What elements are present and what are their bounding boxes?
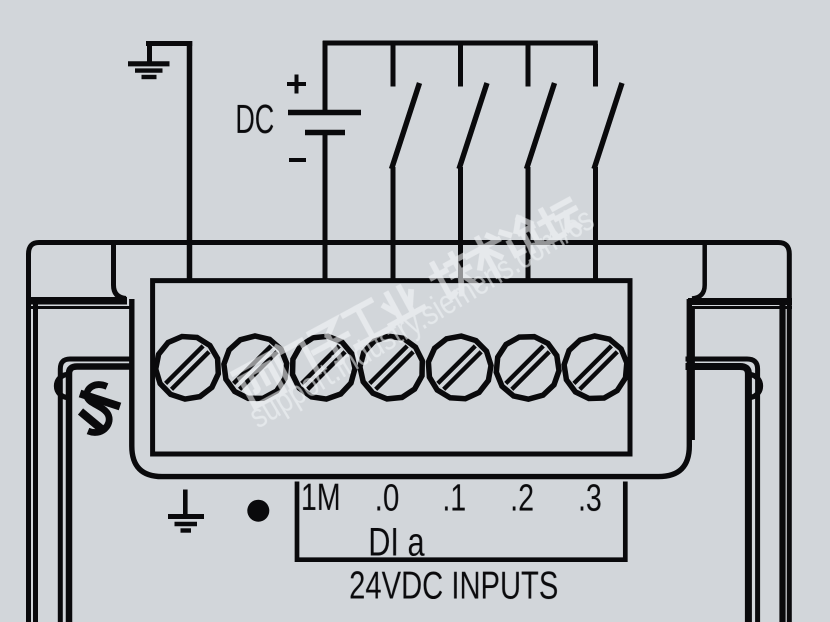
svg-text:DI a: DI a	[368, 520, 424, 565]
svg-text:.1: .1	[442, 478, 466, 520]
svg-text:24VDC INPUTS: 24VDC INPUTS	[349, 565, 558, 608]
svg-text:DC: DC	[235, 97, 274, 142]
svg-text:1M: 1M	[301, 477, 341, 519]
svg-text:.0: .0	[375, 477, 400, 519]
svg-text:.2: .2	[510, 478, 534, 520]
svg-text:.3: .3	[578, 478, 602, 520]
